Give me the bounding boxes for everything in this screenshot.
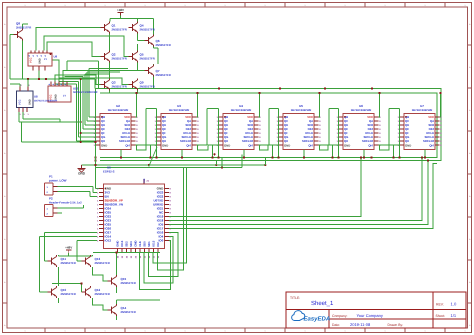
svg-text:1: 1: [265, 4, 266, 7]
svg-text:SD3: SD3: [129, 241, 133, 247]
svg-text:1: 1: [465, 4, 466, 7]
svg-text:2N5551TFR: 2N5551TFR: [112, 84, 127, 88]
svg-text:1: 1: [25, 330, 26, 333]
svg-text:U7: U7: [420, 104, 424, 108]
svg-text:1: 1: [145, 4, 146, 7]
svg-text:1Y: 1Y: [63, 95, 66, 98]
svg-text:1: 1: [25, 4, 26, 7]
svg-text:GND: GND: [405, 143, 411, 147]
svg-text:2N5551TFR: 2N5551TFR: [121, 310, 136, 314]
svg-text:GND: GND: [39, 58, 42, 64]
svg-text:2N5551TFR: 2N5551TFR: [121, 281, 136, 285]
svg-text:2N5551TFR: 2N5551TFR: [140, 84, 155, 88]
svg-text:2N5551TFR: 2N5551TFR: [61, 292, 76, 296]
svg-text:1: 1: [65, 330, 66, 333]
svg-text:Company:: Company:: [332, 314, 348, 318]
svg-text:REV:: REV:: [436, 302, 444, 306]
svg-text:GND: GND: [162, 143, 168, 147]
svg-text:GND: GND: [29, 99, 32, 105]
svg-text:SD2: SD2: [125, 241, 129, 247]
svg-text:GND: GND: [78, 172, 86, 176]
svg-text:SN74LVC1G02DCKR: SN74LVC1G02DCKR: [73, 91, 98, 94]
svg-text:1: 1: [105, 330, 106, 333]
svg-text:1: 1: [185, 330, 186, 333]
svg-text:U4: U4: [239, 104, 243, 108]
svg-text:U6: U6: [359, 104, 363, 108]
svg-text:Sheet_1: Sheet_1: [311, 300, 334, 307]
svg-text:2N5551TFR: 2N5551TFR: [112, 56, 127, 60]
svg-text:QH': QH': [308, 143, 313, 147]
svg-text:1: 1: [225, 330, 226, 333]
svg-text:U2: U2: [116, 104, 120, 108]
svg-text:1: 1: [225, 4, 226, 7]
svg-text:+48V: +48V: [65, 245, 72, 249]
svg-text:Drawn By:: Drawn By:: [388, 323, 404, 327]
svg-text:1: 1: [345, 4, 346, 7]
svg-text:1: 1: [425, 4, 426, 7]
svg-text:1: 1: [105, 4, 106, 7]
svg-text:1: 1: [305, 4, 306, 7]
svg-text:IO0: IO0: [158, 239, 163, 243]
svg-text:2N5551TFR: 2N5551TFR: [156, 43, 171, 47]
svg-text:EasyEDA: EasyEDA: [304, 315, 331, 322]
svg-text:2N5551TFR: 2N5551TFR: [112, 27, 127, 31]
svg-text:2N5551TFR: 2N5551TFR: [95, 261, 110, 265]
svg-text:IO15: IO15: [152, 240, 156, 247]
svg-text:GND: GND: [116, 241, 120, 247]
svg-text:QH': QH': [248, 143, 253, 147]
svg-text:2N5551TFR: 2N5551TFR: [95, 292, 110, 296]
svg-text:1.0: 1.0: [451, 301, 457, 306]
svg-text:TITLE:: TITLE:: [290, 296, 300, 300]
svg-text:SN74HC595PWR: SN74HC595PWR: [231, 109, 252, 112]
svg-text:2N5551TFR: 2N5551TFR: [140, 27, 155, 31]
svg-text:2N5551TFR: 2N5551TFR: [16, 26, 31, 30]
svg-text:SN74HC595PWR: SN74HC595PWR: [351, 109, 372, 112]
svg-text:1: 1: [385, 4, 386, 7]
svg-text:IO12: IO12: [105, 239, 112, 243]
svg-text:CMD: CMD: [134, 240, 138, 246]
svg-text:QH': QH': [368, 143, 373, 147]
svg-text:1: 1: [305, 330, 306, 333]
svg-text:GND: GND: [101, 143, 107, 147]
svg-text:power_LOW: power_LOW: [49, 178, 67, 182]
svg-text:1: 1: [465, 330, 466, 333]
svg-text:CLK: CLK: [138, 241, 142, 247]
svg-text:Header-Female-2.54_1x2: Header-Female-2.54_1x2: [49, 200, 82, 204]
svg-text:IO13: IO13: [120, 240, 124, 247]
svg-text:SN74HC595PWR: SN74HC595PWR: [291, 109, 312, 112]
svg-text:U9: U9: [54, 55, 58, 59]
svg-text:VCC: VCC: [30, 57, 33, 63]
svg-text:1: 1: [185, 4, 186, 7]
svg-text:ESP32-S: ESP32-S: [103, 170, 115, 174]
svg-text:2N5551TFR: 2N5551TFR: [61, 261, 76, 265]
svg-text:GND: GND: [284, 143, 290, 147]
svg-text:1: 1: [65, 4, 66, 7]
svg-text:SD0: SD0: [143, 241, 147, 247]
svg-text:SN74HC595PWR: SN74HC595PWR: [412, 109, 433, 112]
svg-text:1/1: 1/1: [451, 313, 457, 318]
svg-text:VCC: VCC: [19, 99, 22, 105]
svg-text:GND: GND: [224, 143, 230, 147]
svg-text:U10: U10: [73, 87, 79, 91]
svg-text:Your Company: Your Company: [357, 313, 383, 318]
svg-text:1: 1: [385, 330, 386, 333]
svg-text:GND: GND: [344, 143, 350, 147]
svg-text:U5: U5: [299, 104, 303, 108]
svg-text:SD1: SD1: [147, 241, 151, 247]
svg-text:U3: U3: [177, 104, 181, 108]
svg-text:2N5551TFR: 2N5551TFR: [140, 56, 155, 60]
svg-text:Sheet:: Sheet:: [436, 314, 446, 318]
svg-text:1: 1: [345, 330, 346, 333]
svg-text:2N5551TFR: 2N5551TFR: [156, 73, 171, 77]
svg-text:+48V: +48V: [117, 8, 124, 12]
svg-text:1: 1: [425, 330, 426, 333]
svg-text:SN74LVC1G00DBVR: SN74LVC1G00DBVR: [34, 100, 57, 103]
svg-text:IO2: IO2: [156, 242, 160, 247]
svg-text:QH': QH': [429, 143, 434, 147]
svg-text:SN74HC595PWR: SN74HC595PWR: [108, 109, 129, 112]
svg-text:1: 1: [145, 330, 146, 333]
svg-text:QH': QH': [186, 143, 191, 147]
svg-text:QH': QH': [125, 143, 130, 147]
svg-text:U8: U8: [34, 95, 38, 99]
svg-text:1: 1: [265, 330, 266, 333]
svg-text:1Y: 1Y: [44, 58, 47, 61]
svg-text:2019-11-08: 2019-11-08: [350, 322, 371, 327]
svg-text:SN74HC595PWR: SN74HC595PWR: [169, 109, 190, 112]
svg-text:Date:: Date:: [332, 323, 340, 327]
